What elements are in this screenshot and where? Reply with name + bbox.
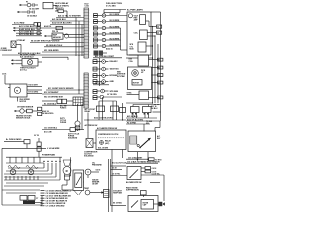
wire row signal <box>42 51 84 53</box>
resistor tap 3 <box>21 157 23 163</box>
svg-text:A142 18 DK BLU: A142 18 DK BLU <box>19 28 36 31</box>
svg-text:FUSE 5: FUSE 5 <box>60 108 66 110</box>
right bus vertical 4 <box>151 11 161 13</box>
svg-text:INJ 1 WIRE: INJ 1 WIRE <box>110 14 121 16</box>
wire row TPS <box>30 42 84 44</box>
svg-text:K6 18 GRY: K6 18 GRY <box>29 85 39 87</box>
left return wire <box>1 148 3 205</box>
right bus vertical 2 <box>154 36 156 103</box>
svg-text:PD1 18: PD1 18 <box>52 31 58 33</box>
distributor pickup coil <box>132 70 139 77</box>
radio capacitor box <box>128 196 158 212</box>
resistor drop wires <box>5 176 7 180</box>
fusible link F1 row <box>19 4 24 6</box>
svg-text:M: M <box>66 171 68 173</box>
svg-text:G5 18: G5 18 <box>112 168 117 170</box>
svg-text:ROTOR: ROTOR <box>133 82 140 84</box>
ISC wire 3 <box>27 93 42 95</box>
sync output wire <box>149 97 158 99</box>
connector CAV B <box>158 66 163 69</box>
injector harness bracket <box>104 9 126 11</box>
svg-text:N12 18 GRY/RED EGR: N12 18 GRY/RED EGR <box>44 97 64 99</box>
svg-text:DK BLU: DK BLU <box>151 108 158 110</box>
distributor wire row 1 <box>152 67 158 69</box>
legend row 1 <box>41 190 45 192</box>
cluster stub <box>35 201 42 203</box>
oxygen sensor row <box>14 110 19 112</box>
collector wire 3 <box>4 185 44 187</box>
svg-text:GND: GND <box>110 81 115 83</box>
svg-text:A21 14 DK BLU: A21 14 DK BLU <box>20 56 34 59</box>
svg-text:B3: B3 <box>158 67 160 69</box>
relay output vertical 1 <box>111 150 113 213</box>
wire label row B+ <box>13 27 18 29</box>
A/C relay box right <box>128 131 156 152</box>
bus collector wire <box>126 102 153 104</box>
collector wire 4 <box>2 189 40 191</box>
C104 twin leads right <box>111 106 119 112</box>
collector wire 5 <box>6 192 36 194</box>
heater connector cluster <box>20 196 27 201</box>
fuel injector row INJ 3 WIRE <box>94 26 98 28</box>
svg-text:A142 16 DK BLU/ORG: A142 16 DK BLU/ORG <box>94 117 113 120</box>
connector CAV A <box>158 58 163 61</box>
svg-text:C101: C101 <box>2 73 6 75</box>
svg-text:A/C PRESS SW: A/C PRESS SW <box>85 124 98 127</box>
svg-text:C4 18 TAN BLOWER M3: C4 18 TAN BLOWER M3 <box>46 197 68 200</box>
fuel injector row INJ 6 WIRE <box>94 44 98 46</box>
wire row heated window 1 <box>126 158 148 160</box>
vertical feed wires <box>75 18 77 57</box>
ISC ground stem <box>17 97 19 102</box>
relay output lead 1 <box>137 152 139 159</box>
svg-text:C6 18 YEL: C6 18 YEL <box>152 173 160 175</box>
wire row C13 <box>42 129 70 131</box>
C105 lead <box>120 108 126 113</box>
distributor wire row 3 <box>152 82 158 84</box>
svg-text:K12 18 TAN/WHT: K12 18 TAN/WHT <box>44 91 59 94</box>
svg-text:K7 18 ORG: K7 18 ORG <box>29 92 39 94</box>
svg-text:C15 12 BLK/WHT: C15 12 BLK/WHT <box>128 157 143 159</box>
svg-text:M: M <box>16 90 18 92</box>
main ground bus <box>108 159 110 212</box>
bottom return wire <box>2 204 42 206</box>
nested collector 3 <box>4 173 52 175</box>
vertical feed right <box>78 55 80 94</box>
svg-text:SUPPRESSION: SUPPRESSION <box>126 190 139 192</box>
resistor block top rail <box>6 162 44 164</box>
fuel injector row INJ 5 WIRE <box>94 38 98 40</box>
wire row A142 right <box>126 120 160 122</box>
collector wire 2 <box>6 182 48 184</box>
bus branch wire <box>153 111 161 113</box>
svg-text:E5: E5 <box>158 97 160 99</box>
idle speed motor M1 <box>10 84 27 97</box>
wire row K12 <box>42 93 84 95</box>
compressor clutch solenoid <box>86 139 93 148</box>
idle speed actuator <box>22 59 38 67</box>
collector wire 1 <box>4 179 60 181</box>
wire row bottom <box>42 104 73 106</box>
capacitor output wire <box>154 203 160 205</box>
svg-text:J3: J3 <box>157 33 159 35</box>
right bus vertical 3 <box>157 44 159 103</box>
tap terminals <box>43 161 44 162</box>
A/C compressor clutch relay box <box>96 130 126 150</box>
ISC wire 2 <box>27 89 42 91</box>
svg-text:C101: C101 <box>85 6 89 8</box>
svg-text:DK BLU/ORG: DK BLU/ORG <box>42 113 54 115</box>
wire label row 3 <box>16 32 42 34</box>
svg-text:N5 18 BLK/LT BLU: N5 18 BLK/LT BLU <box>46 45 63 47</box>
oil pressure sender <box>85 169 91 175</box>
svg-text:C6 18 YEL: C6 18 YEL <box>112 174 120 176</box>
right vertical drop 1 <box>143 124 145 132</box>
svg-text:A142 16: A142 16 <box>106 48 113 51</box>
svg-text:A142 DK BLU/ORG: A142 DK BLU/ORG <box>127 118 144 121</box>
nested collector 1 <box>8 167 44 169</box>
svg-text:TEMP SEN: TEMP SEN <box>113 192 123 194</box>
svg-text:INJ 2 WIRE: INJ 2 WIRE <box>110 20 121 22</box>
ignition coil box <box>138 55 149 66</box>
diode D1 <box>58 10 64 13</box>
distance sensor row <box>93 96 97 98</box>
resistor tap 6 <box>39 157 41 163</box>
funnel below switch box <box>74 191 82 196</box>
svg-text:SYSTEM: SYSTEM <box>117 76 125 78</box>
svg-text:SPD SEN: SPD SEN <box>110 91 119 93</box>
sensor row IGN ADV <box>93 60 97 62</box>
wire row fuel gauge <box>111 165 127 167</box>
connector J3 <box>157 31 162 34</box>
connector CAV D <box>158 81 163 84</box>
svg-text:A41 12 YEL TO STARTER: A41 12 YEL TO STARTER <box>58 15 81 18</box>
fusible link F2 row <box>17 11 22 13</box>
purge solenoid valve hatch <box>75 126 80 130</box>
svg-text:OXYGEN SENSOR: OXYGEN SENSOR <box>17 107 34 109</box>
svg-text:J2: J2 <box>157 27 159 29</box>
relay output vertical 2 <box>122 150 124 159</box>
long feed wire <box>2 147 46 149</box>
distributor wire row 2 <box>152 74 158 76</box>
svg-text:A/C CLUTCH COIL: A/C CLUTCH COIL <box>112 161 127 164</box>
cutout relay vertical <box>87 113 89 139</box>
nested collector 4 <box>4 176 56 178</box>
svg-text:SOLENOID: SOLENOID <box>84 156 94 158</box>
connector J2 <box>157 25 162 28</box>
svg-text:G7 18: G7 18 <box>34 135 39 137</box>
blower switch box <box>127 167 141 180</box>
svg-text:C13 18 DK BLU: C13 18 DK BLU <box>44 128 58 130</box>
svg-text:K1 18 DK BLU: K1 18 DK BLU <box>44 103 57 105</box>
nested collector 2 <box>6 170 48 172</box>
svg-text:TEMP: TEMP <box>84 188 90 190</box>
relay switch blade <box>140 138 151 148</box>
wire row start feed <box>93 57 122 59</box>
svg-text:POWER DIST: POWER DIST <box>1 50 13 52</box>
junction block hatch <box>73 97 83 106</box>
svg-text:N6 18 GRY THROTTLE POSITION: N6 18 GRY THROTTLE POSITION <box>31 41 60 43</box>
blower motor funnel <box>63 160 71 166</box>
svg-text:ST RELAY: ST RELAY <box>17 39 27 42</box>
power module box <box>127 12 151 55</box>
svg-text:C16 12 BLK TO HEATED REAR WIN: C16 12 BLK TO HEATED REAR WINDOW <box>127 160 160 163</box>
injector power connector <box>94 51 99 56</box>
solenoid to relay wire <box>93 142 96 144</box>
fuel injector row INJ 1 WIRE <box>94 14 98 16</box>
svg-text:A21 DK BLU: A21 DK BLU <box>127 115 138 118</box>
alternator symbol <box>128 14 132 18</box>
wire row A21 right <box>126 117 157 119</box>
svg-text:A142 16: A142 16 <box>44 25 51 28</box>
svg-text:C7 12 BLK GROUND: C7 12 BLK GROUND <box>46 206 65 208</box>
ballast resistor R1 <box>42 27 84 29</box>
wire row F2 right <box>126 123 150 125</box>
svg-text:B+ FUSE 6 RADIO: B+ FUSE 6 RADIO <box>6 138 22 141</box>
ignition coil driver sub-box <box>140 30 148 40</box>
svg-text:N11 18 BLK/RED: N11 18 BLK/RED <box>44 50 59 52</box>
svg-text:G7 18 ORG: G7 18 ORG <box>107 94 117 96</box>
svg-text:SOL 18 GRN: SOL 18 GRN <box>98 148 109 150</box>
svg-text:TD 18 TAN: TD 18 TAN <box>95 82 105 85</box>
legend row 3 <box>41 195 45 197</box>
svg-text:PRESSURE: PRESSURE <box>92 164 102 166</box>
svg-text:C2: C2 <box>158 75 160 77</box>
wire row bottom right <box>111 205 127 207</box>
svg-text:A21 14 DK BLU: A21 14 DK BLU <box>52 18 66 21</box>
ground bus 2 <box>110 159 112 196</box>
svg-text:C7: C7 <box>36 198 38 200</box>
blower motor symbol 2 <box>28 169 34 175</box>
svg-text:A/C LOW: A/C LOW <box>44 131 52 134</box>
wire row 2 <box>111 169 123 171</box>
sensor bus vertical <box>99 58 101 86</box>
loop wire right edge <box>163 175 165 201</box>
svg-text:COMPRESSOR CLUTCH: COMPRESSOR CLUTCH <box>98 134 119 136</box>
coolant temp sender <box>85 190 90 195</box>
svg-text:A4: A4 <box>158 59 160 62</box>
resistor tap 4 <box>27 157 29 163</box>
wire to J3 connector <box>147 35 155 37</box>
svg-text:INJ 4 WIRE: INJ 4 WIRE <box>110 31 121 34</box>
blower switch box <box>73 170 84 191</box>
relay coil circle A/C <box>100 141 104 145</box>
bus wire A142 <box>84 119 126 121</box>
splice box S1 <box>70 128 75 132</box>
spark control sub-box <box>138 42 146 52</box>
svg-text:N1 18 TAN: N1 18 TAN <box>113 202 122 205</box>
blower resistor coil 1 <box>8 165 20 168</box>
svg-text:SOLENOID: SOLENOID <box>68 138 78 140</box>
svg-text:MOTOR: MOTOR <box>20 101 27 103</box>
starter relay component <box>11 41 16 48</box>
ECU connector strip C102 <box>84 73 88 108</box>
injector feed junction wires <box>120 28 122 50</box>
svg-text:B+ PWR LAMPS: B+ PWR LAMPS <box>127 9 143 12</box>
svg-text:C4 18: C4 18 <box>152 167 157 170</box>
fuel injector row INJ 4 WIRE <box>94 32 98 34</box>
wire label row 2 <box>13 30 18 32</box>
svg-text:INJ 3 WIRE: INJ 3 WIRE <box>110 26 121 28</box>
sensor row GND <box>93 80 97 82</box>
regulator output wire <box>146 20 150 22</box>
starter relay leads <box>131 107 140 113</box>
svg-text:S4 18 PPL: S4 18 PPL <box>55 7 65 10</box>
svg-text:A21 14 DK BLU START: A21 14 DK BLU START <box>95 55 115 58</box>
relay output wire <box>16 44 21 46</box>
resistor tap 2 <box>15 157 17 163</box>
svg-text:A21 16 DK BLU: A21 16 DK BLU <box>19 33 34 36</box>
wire row batt <box>50 24 84 26</box>
svg-text:A142 16 DK BLU/ORG: A142 16 DK BLU/ORG <box>52 22 72 25</box>
MAP sensor B1 <box>52 33 63 39</box>
wire A1 label row <box>12 24 34 26</box>
blower motor stem <box>64 174 66 180</box>
svg-text:IGN ADV: IGN ADV <box>110 60 119 63</box>
wire row ground <box>2 54 84 56</box>
regulator sub-box <box>140 15 146 25</box>
svg-text:SENSOR: SENSOR <box>53 37 62 39</box>
svg-text:SENSOR 18 BLK: SENSOR 18 BLK <box>16 118 31 120</box>
wire row heated window 2 <box>126 162 158 164</box>
svg-text:16 GA BLK: 16 GA BLK <box>27 14 38 17</box>
svg-text:(A/C): (A/C) <box>105 142 110 145</box>
svg-text:PURGE: PURGE <box>60 122 67 124</box>
svg-text:14 GA GRY: 14 GA GRY <box>29 7 40 10</box>
switch row 1 <box>141 167 145 169</box>
connector CAV C <box>158 74 163 77</box>
sensor row BYPASS <box>93 74 97 76</box>
fuel injector row INJ 2 WIRE <box>94 20 98 22</box>
svg-text:POWERTRAIN: POWERTRAIN <box>42 153 56 156</box>
coil secondary wire <box>149 59 158 61</box>
speed sensor row <box>93 90 97 92</box>
blower switch inner <box>75 173 82 188</box>
capacitor switch blade <box>132 201 139 208</box>
legend row 4 <box>41 197 45 199</box>
wire to J2 connector <box>147 32 156 34</box>
legend row 7 <box>41 205 45 207</box>
wire row start solenoid <box>56 17 84 19</box>
inline connector pair <box>37 142 41 146</box>
wire row TDC sensor <box>93 84 109 86</box>
wire row sensor return <box>44 46 84 48</box>
svg-text:A21 14 DK BLU: A21 14 DK BLU <box>19 31 34 34</box>
svg-text:INJ 5 WIRE: INJ 5 WIRE <box>110 38 121 40</box>
legend row 6 <box>41 202 45 204</box>
ballast element <box>104 190 110 198</box>
C103 twin leads left <box>97 106 105 112</box>
distributor rotor sub-box <box>132 80 142 86</box>
svg-text:F2 18 PNK: F2 18 PNK <box>127 122 137 124</box>
blower motor symbol 1 <box>10 169 16 175</box>
resistor tap 1 <box>9 157 11 163</box>
svg-text:A21 12 DK BLU: A21 12 DK BLU <box>19 25 34 28</box>
switch row 2 <box>141 171 145 173</box>
blower resistor coil 2 <box>26 165 38 168</box>
sync pickup box <box>139 91 149 100</box>
wire label row 4 <box>16 35 42 37</box>
blower motor feed corner <box>70 157 72 176</box>
EGR solenoid boxes <box>57 99 62 103</box>
svg-text:TACH SIG: TACH SIG <box>110 68 120 71</box>
noise choke box <box>141 191 147 195</box>
wire row blower feed <box>111 175 128 177</box>
module exit wire <box>129 54 138 56</box>
switch row 3 <box>141 174 164 176</box>
right bus vertical 1 <box>152 27 154 104</box>
relay coil hatched <box>130 136 137 144</box>
O2 connector halves <box>38 107 42 110</box>
legend row 5 <box>41 200 45 202</box>
bus corner wire <box>42 56 68 58</box>
svg-text:D1: D1 <box>158 82 160 84</box>
svg-text:K11 18 WHT KNOCK SENSOR: K11 18 WHT KNOCK SENSOR <box>48 88 74 90</box>
resistor feed bus <box>6 156 62 158</box>
cold start relay K1 <box>43 2 53 8</box>
svg-text:# 14 GA WIRE: # 14 GA WIRE <box>47 147 60 150</box>
distributor box <box>128 67 152 90</box>
legend row 2 <box>41 192 45 194</box>
capacitor inner box <box>141 200 154 210</box>
wire row K11 <box>46 89 84 91</box>
svg-text:INJ 6 WIRE: INJ 6 WIRE <box>110 44 121 46</box>
sensor row TACH SIG <box>93 67 97 69</box>
output connector dark <box>159 202 163 206</box>
svg-text:G6 18: G6 18 <box>96 169 101 171</box>
resistor tap 5 <box>33 157 35 163</box>
relay output lead 2 <box>147 152 149 159</box>
svg-text:A1 12 RED: A1 12 RED <box>14 21 25 24</box>
blower motor M2 <box>63 167 71 175</box>
ISC wire 1 <box>27 86 42 88</box>
wire row ign run <box>50 20 84 22</box>
switch rows <box>83 173 86 175</box>
switch tap wires nested <box>43 163 45 168</box>
svg-text:6 CYL ENG: 6 CYL ENG <box>106 5 116 7</box>
connector CAV E <box>158 96 163 99</box>
svg-text:BLOWER MTR SW: BLOWER MTR SW <box>126 182 142 184</box>
svg-text:SW: SW <box>146 123 149 125</box>
svg-text:(6 CYL): (6 CYL) <box>20 70 27 72</box>
svg-text:18 GRY: 18 GRY <box>92 184 99 186</box>
